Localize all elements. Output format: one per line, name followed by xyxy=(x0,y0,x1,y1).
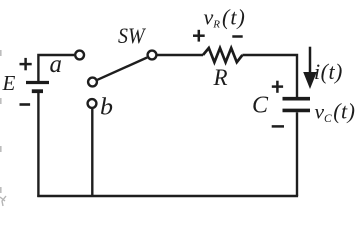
minus sign at resistor xyxy=(232,35,242,38)
battery E top plate (long, positive) xyxy=(26,81,49,84)
scan artifact at bottom-left corner xyxy=(0,196,6,206)
wire: switch pivot to resistor xyxy=(157,54,203,56)
capacitor C bottom plate xyxy=(283,109,311,113)
switch pivot circle xyxy=(148,51,157,60)
wire: battery negative lead down to bottom rail xyxy=(37,93,39,197)
node a terminal circle xyxy=(75,51,84,60)
node b terminal circle xyxy=(88,99,97,108)
capacitor C top plate xyxy=(283,97,311,101)
battery E bottom plate (short, negative) xyxy=(32,89,43,93)
plus sign at capacitor xyxy=(272,81,283,93)
switch SW blade xyxy=(97,58,147,80)
current arrow i(t) head xyxy=(303,72,317,89)
plus sign at resistor xyxy=(193,30,205,42)
wire: capacitor bottom lead down to bottom rail xyxy=(296,112,298,196)
svg-text:vR(t): vR(t) xyxy=(204,5,246,31)
svg-text:C: C xyxy=(252,93,269,119)
svg-text:E: E xyxy=(2,71,16,95)
current arrow i(t) shaft xyxy=(309,47,312,74)
wire: bottom rail xyxy=(37,195,298,197)
svg-text:i(t): i(t) xyxy=(314,59,343,84)
resistor R zigzag xyxy=(203,48,242,62)
svg-text:b: b xyxy=(100,95,113,121)
scan artifact marks on left edge xyxy=(0,50,2,193)
wire: resistor to top-right corner and down to capacitor xyxy=(242,55,297,97)
svg-text:SW: SW xyxy=(118,23,146,48)
svg-text:R: R xyxy=(213,65,228,90)
minus sign at battery xyxy=(20,103,31,106)
svg-text:vC(t): vC(t) xyxy=(315,99,356,126)
plus sign at battery xyxy=(20,58,32,70)
wire: battery positive lead up and right to terminal a xyxy=(38,55,74,82)
switch blade free-end circle xyxy=(88,78,97,87)
minus sign at capacitor xyxy=(272,125,284,128)
svg-text:a: a xyxy=(50,51,62,78)
wire: terminal b down to bottom rail xyxy=(91,109,93,197)
